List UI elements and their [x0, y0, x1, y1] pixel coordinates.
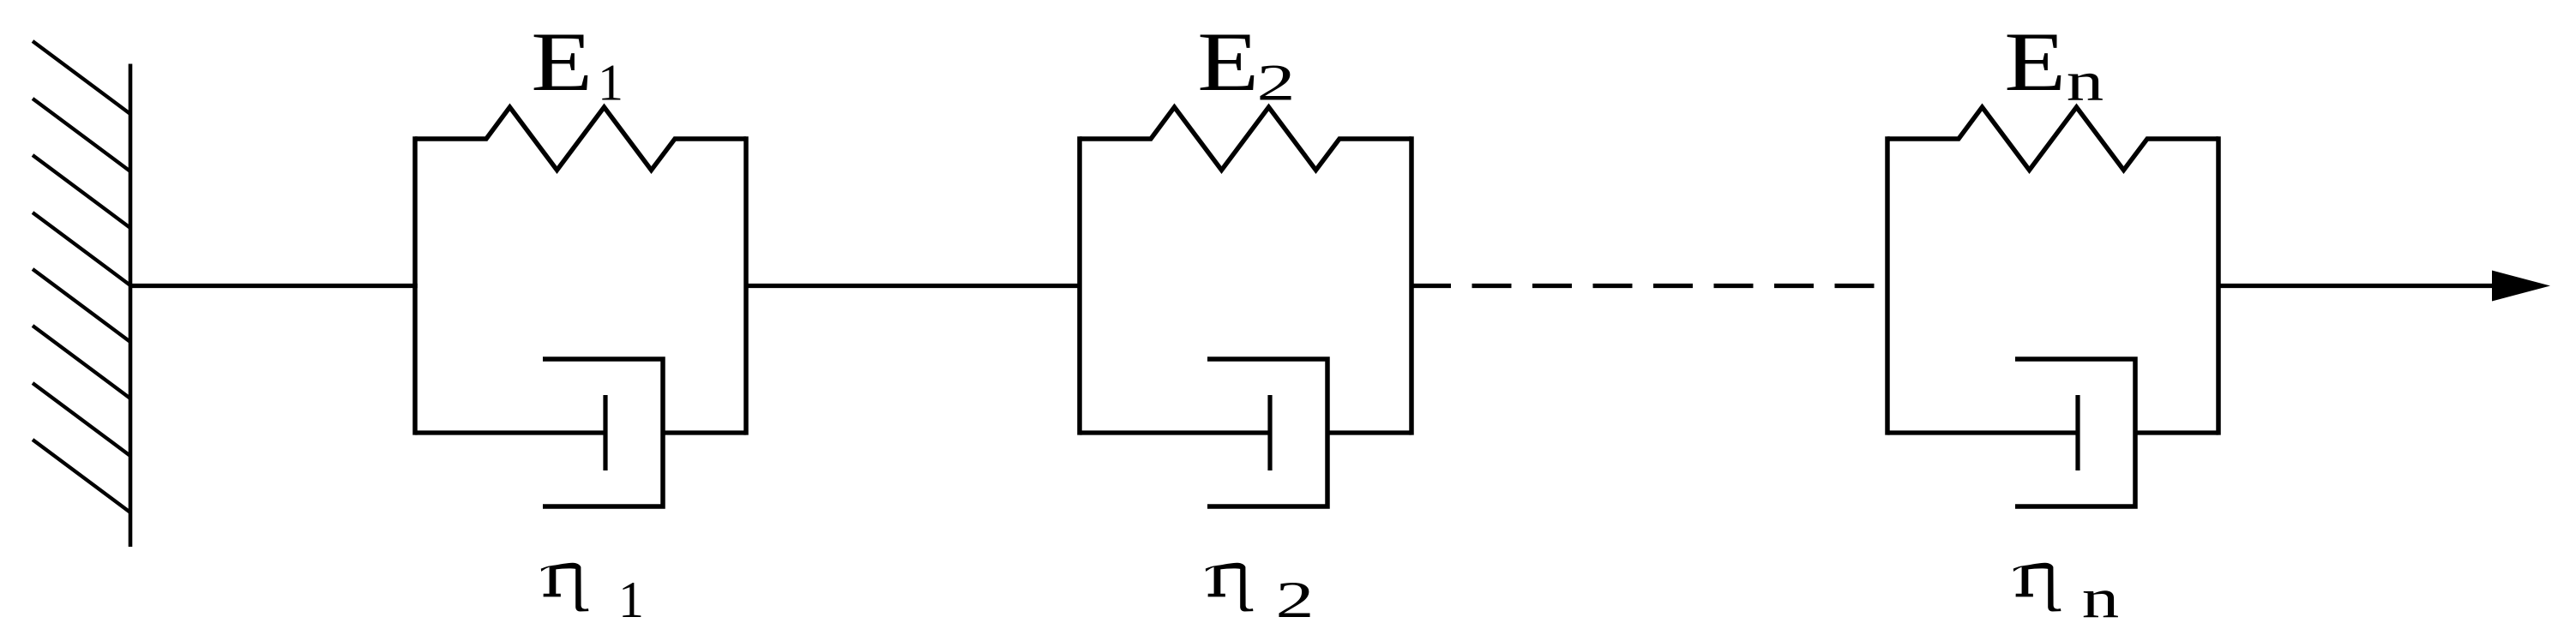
Kelvin-Voigt unit 2: right vertical bar	[1409, 136, 1414, 434]
Kelvin-Voigt unit n: right vertical bar	[2216, 136, 2221, 434]
svg-text:2: 2	[1276, 572, 1315, 629]
svg-text:E: E	[1197, 15, 1259, 109]
dashpot etan: piston rod (bottom-left wire)	[1887, 430, 2078, 434]
Kelvin-Voigt unit n: left vertical bar	[1885, 136, 1890, 434]
dashed wire: unit 2 to unit n	[1411, 284, 1887, 288]
svg-text:2: 2	[1257, 54, 1296, 111]
dashpot eta2: cylinder cup	[1207, 359, 1327, 506]
dashpot etan: bottom-right wire	[2135, 430, 2218, 434]
dashpot eta2: piston plate	[1267, 395, 1272, 470]
spring En (zigzag)	[1887, 107, 2218, 171]
dashpot etan: cylinder cup	[2015, 359, 2135, 506]
Kelvin-Voigt unit 2: left vertical bar	[1077, 136, 1082, 434]
fixed wall (rigid support)	[33, 41, 130, 547]
Kelvin-Voigt unit 1: right vertical bar	[743, 136, 749, 434]
output wire (loading axis)	[2218, 284, 2494, 288]
spring E1 (zigzag)	[415, 107, 746, 171]
svg-text:1: 1	[598, 55, 623, 111]
dashpot eta1: piston plate	[603, 395, 607, 470]
arrowhead	[2492, 271, 2550, 302]
svg-text:n: n	[2067, 50, 2104, 113]
svg-text:n: n	[2082, 566, 2120, 630]
dashpot eta2: bottom-right wire	[1327, 430, 1411, 434]
label eta2 (glyph)	[1206, 563, 1254, 612]
label eta1 (glyph)	[541, 563, 589, 612]
wire: unit 1 to unit 2	[746, 284, 1080, 288]
spring E2 (zigzag)	[1080, 107, 1411, 171]
wire: wall to unit 1	[130, 284, 418, 288]
dashpot eta1: piston rod (bottom-left wire)	[415, 430, 605, 434]
svg-text:E: E	[531, 15, 593, 109]
label etan (glyph)	[2013, 563, 2061, 612]
svg-text:E: E	[2004, 15, 2066, 109]
dashpot eta1: bottom-right wire	[663, 430, 746, 434]
dashpot eta2: piston rod (bottom-left wire)	[1080, 430, 1270, 434]
svg-text:1: 1	[618, 572, 644, 628]
dashpot eta1: cylinder cup	[543, 359, 663, 506]
dashpot etan: piston plate	[2075, 395, 2079, 470]
Kelvin-Voigt unit 1: left vertical bar	[412, 136, 418, 434]
